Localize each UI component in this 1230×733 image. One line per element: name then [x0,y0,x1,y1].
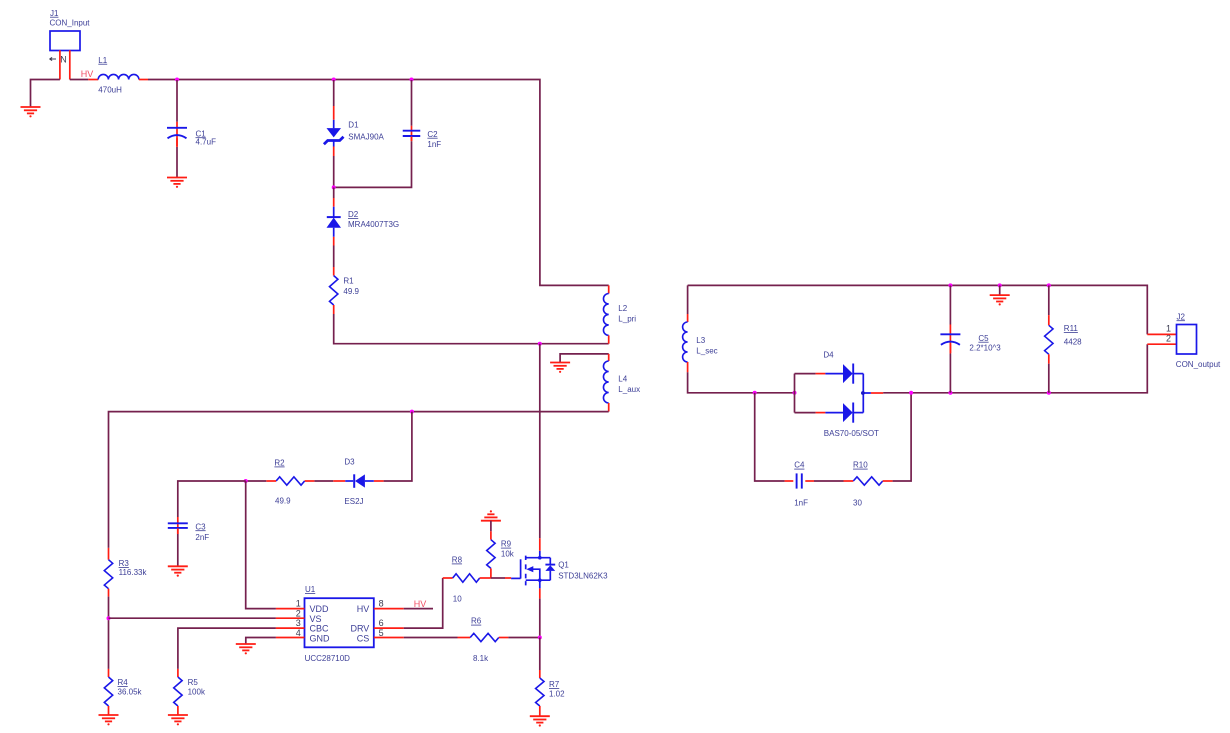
Q1 drain node dot [538,556,542,560]
diode D4 top half [825,364,863,384]
L2 bottom pin [608,335,610,343]
C4 left pin [785,480,794,482]
D2 bottom pin [333,237,335,246]
R1 top pin [333,267,335,276]
svg-text:VDD: VDD [310,604,330,614]
svg-text:DRV: DRV [350,624,369,634]
wire D2 to R1 [333,246,335,268]
svg-text:D1: D1 [348,120,359,129]
svg-text:6: 6 [379,618,384,628]
svg-text:4: 4 [296,628,301,638]
C3 top pin [177,517,179,534]
wire D4 top branch lead [795,373,816,375]
svg-text:J1: J1 [50,9,59,18]
C5 top pin [949,325,951,354]
ground at L4 top [550,363,570,373]
R1 bottom pin [333,305,335,314]
J1 pin 2 lead [69,50,71,79]
svg-text:1nF: 1nF [794,499,808,508]
U1 pin 5 lead [374,637,404,639]
svg-text:R8: R8 [452,556,463,565]
capacitor C3 [168,523,188,528]
inductor L4 aux [603,361,608,403]
Q1 drain pin [539,538,541,551]
wire VDD vertical [246,481,276,609]
R6 left pin [458,637,471,639]
ground below R5 [168,715,188,725]
wire L4 top to ground [560,354,609,362]
C4 right pin [805,480,814,482]
D3 right pin [374,480,384,482]
R4 top pin [108,669,110,677]
capacitor C4 [797,473,802,488]
svg-text:L2: L2 [618,304,627,313]
wire L3 to anode rail [688,372,795,393]
wire rail to C2 [411,80,413,126]
L3 top pin [687,314,689,322]
connector J1 body [50,31,80,51]
svg-text:2: 2 [1166,333,1171,343]
J1 pin 1 lead [59,50,61,79]
svg-text:L_aux: L_aux [618,385,640,394]
svg-text:R1: R1 [343,277,354,286]
node L2 return / drain rail [538,342,542,346]
R9 top pin [490,531,492,539]
svg-text:D3: D3 [344,457,355,466]
svg-text:BAS70-05/SOT: BAS70-05/SOT [824,429,879,438]
C2 top pin [411,126,413,141]
ground at input [21,107,41,117]
ground above R9 inverted [481,510,501,520]
node CS/R6/R7/source [538,636,542,640]
svg-text:MRA4007T3G: MRA4007T3G [348,220,399,229]
svg-text:HV: HV [81,69,94,79]
diode D2 symbol [327,207,342,237]
svg-text:VS: VS [310,614,322,624]
svg-text:L3: L3 [696,336,705,345]
transistor Q1 MOSFET symbol [511,551,555,589]
svg-text:U1: U1 [305,585,316,594]
J1 pin indicator arrow [50,57,57,60]
wire VDD node to C3 [178,481,246,517]
R10 left pin [844,480,854,482]
wire D1 to clamp node [333,156,335,187]
resistor R9 [487,540,495,569]
D3 left pin [333,480,345,482]
inductor L3 secondary [683,322,688,362]
resistor R1 [330,276,338,305]
resistor R11 [1045,325,1053,354]
svg-text:49.9: 49.9 [275,497,291,506]
wire U1 GND to ground [246,638,276,644]
svg-text:1: 1 [1166,324,1171,334]
J2 pin 2 lead [1147,343,1176,345]
wire rail to C5 top [949,285,951,324]
D2 top pin [333,198,335,207]
wire R2 to VDD node [246,480,267,482]
svg-text:R2: R2 [274,459,285,468]
inductor L2 primary [603,294,608,336]
wire CBC to R5 [178,628,276,669]
wire CS to R6 [404,637,458,639]
svg-text:C5: C5 [978,334,989,343]
svg-text:4428: 4428 [1064,337,1082,346]
svg-text:2.2*10^3: 2.2*10^3 [969,344,1001,353]
node clamp D1/C2/D2 [332,185,336,189]
wire C3 to ground [177,534,179,566]
svg-text:8.1k: 8.1k [473,654,489,663]
R10 right pin [883,480,893,482]
svg-text:R11: R11 [1064,324,1079,333]
svg-text:SMAJ90A: SMAJ90A [348,132,384,141]
node top rail / C5 [948,283,952,287]
R3 bottom pin [108,589,110,597]
wire aux rail to D3 [384,412,412,481]
Q1 source pin [539,588,541,598]
wire D4 bottom branch lead [795,412,816,414]
resistor R5 [174,677,182,706]
svg-text:N: N [60,54,67,64]
resistor R4 [104,677,112,706]
svg-text:36.05k: 36.05k [118,688,143,697]
svg-text:CON_Input: CON_Input [50,19,91,28]
C1 bottom pin [176,138,178,147]
R6 right pin [499,637,509,639]
svg-text:C4: C4 [794,461,805,470]
svg-text:R5: R5 [188,678,199,687]
R7 bottom pin [539,706,541,716]
svg-text:UCC28710D: UCC28710D [305,654,351,663]
wire J1 pin2 to L1 [70,79,89,81]
U1 pin 1 lead [276,608,305,610]
wire secondary ground stem [999,285,1001,294]
node anode rail / D4 [793,391,797,395]
op-amp U1 body UCC28710D [305,598,374,647]
node bottom rail / snubber right [909,391,913,395]
svg-text:3: 3 [296,618,301,628]
svg-text:CBC: CBC [310,624,330,634]
wire C4 to R10 [814,480,844,482]
svg-text:STD3LN62K3: STD3LN62K3 [558,571,608,580]
svg-text:C2: C2 [427,130,438,139]
wire ground to R9 [490,521,492,532]
R8 right pin [480,577,491,579]
ground at U1 GND pin [236,644,256,654]
resistor R7 [536,678,544,706]
resistor R8 [453,574,480,582]
svg-text:1.02: 1.02 [549,689,565,698]
svg-text:5: 5 [379,628,384,638]
svg-text:HV: HV [357,604,370,614]
D4 bottom anode pin [816,412,826,414]
L1 left pin [88,79,98,81]
svg-text:C3: C3 [195,522,206,531]
R5 bottom pin [177,706,179,715]
svg-text:ES2J: ES2J [344,497,363,506]
ground below R7 [530,716,550,726]
svg-text:2nF: 2nF [195,533,209,542]
wire rail to D1 [333,80,335,106]
C2 bottom pin [411,137,413,142]
wire drain rail down [539,344,541,539]
svg-text:R7: R7 [549,680,560,689]
svg-text:10k: 10k [501,550,515,559]
R2 right pin [305,480,315,482]
wire R1 to L2 bottom [334,314,609,344]
node top rail / R11 [1047,283,1051,287]
svg-text:10: 10 [453,594,462,603]
svg-text:L1: L1 [98,56,107,65]
R8 left pin [443,577,453,579]
node anode rail / snubber [753,391,757,395]
svg-text:8: 8 [379,599,384,609]
svg-text:4.7uF: 4.7uF [196,137,217,146]
ground below R4 [99,715,119,725]
wire R6 to CS node [508,637,539,639]
U1 pin 3 lead [276,627,305,629]
ground below C1 [167,178,187,188]
C5 bottom pin [949,343,951,353]
diode D1 TVS symbol [324,120,344,147]
wire C2 to clamp node [334,141,412,187]
wire C5 bottom to rail [949,354,951,393]
wire DRV to R8 [404,578,443,628]
node top rail / ground [998,283,1002,287]
diode D4 bottom half [825,403,863,423]
resistor R3 [104,560,112,589]
R11 bottom pin [1048,354,1050,363]
Q1 source node dot [538,578,542,582]
connector J2 body [1177,325,1197,355]
svg-text:R3: R3 [119,559,130,568]
svg-text:D2: D2 [348,210,359,219]
wire C1 to ground [176,147,178,177]
R2 left pin [266,480,276,482]
wire J1 pin1 to ground [31,80,60,107]
svg-text:30: 30 [853,499,862,508]
R11 top pin [1048,315,1050,325]
ground below C3 [168,566,188,576]
R4 bottom pin [108,706,110,715]
wire snubber right [893,393,912,481]
svg-text:470uH: 470uH [98,86,122,95]
node HV rail / D1 [332,78,336,82]
wire aux rail [109,412,609,548]
L2 top pin [608,285,610,293]
svg-text:L_sec: L_sec [696,347,717,356]
resistor R2 [276,477,305,485]
node HV rail / C2 [410,78,414,82]
capacitor C2 [403,131,421,136]
wire clamp node to D2 [333,187,335,198]
D1 bottom pin [333,147,335,157]
wire secondary top rail [688,285,1148,334]
resistor R6 [470,633,499,641]
D4 right bar [863,374,871,413]
svg-text:1: 1 [296,599,301,609]
C3 bottom pin [177,528,179,534]
svg-text:GND: GND [310,633,331,643]
svg-text:R4: R4 [118,678,129,687]
ground on secondary rail [990,295,1010,305]
wire CS node to R7 [539,638,541,671]
wire D4 left bar [794,374,796,413]
wire Q1 source to CS node [539,599,541,638]
capacitor C5 [940,334,960,345]
L4 bottom pin [608,403,610,412]
wire HV rail to primary [148,80,609,286]
Q1 gate pin [505,577,511,579]
svg-text:2: 2 [296,608,301,618]
U1 pin 6 lead [374,627,404,629]
svg-text:R6: R6 [471,617,482,626]
node bottom rail / R11 [1047,391,1051,395]
wire VS to U1 [109,617,276,619]
D4 cathode node dot [861,391,865,395]
capacitor C1 [167,128,187,139]
node VS divider [107,616,111,620]
D4 top anode pin [816,373,826,375]
node aux rail / D3 branch [410,410,414,414]
diode D3 symbol [345,474,374,488]
J2 pin 1 lead [1147,333,1176,335]
svg-text:R10: R10 [853,461,868,470]
wire R3 to R4 [108,597,110,669]
svg-text:L4: L4 [618,374,627,383]
svg-text:CS: CS [357,633,370,643]
U1 pin 4 lead [276,637,305,639]
node HV rail / C1 [175,78,179,82]
D1 top pin [333,106,335,120]
L4 top pin [608,354,610,361]
wire D3 to R2 [314,480,333,482]
svg-text:116.33k: 116.33k [119,568,148,577]
svg-text:1nF: 1nF [427,140,441,149]
wire rail to C1 [176,80,178,122]
svg-text:Q1: Q1 [558,560,569,569]
wire gate node to Q1 [491,577,505,579]
U1 pin 8 lead [374,608,404,610]
L1 right pin [139,79,148,81]
C1 top pin [176,122,178,146]
wire snubber left [755,393,785,481]
node VDD/C3/R2 [244,479,248,483]
resistor R10 [853,477,882,485]
L3 bottom pin [687,362,689,372]
svg-text:D4: D4 [823,351,834,360]
wire rail to R11 top [1048,285,1050,315]
wire output bottom rail [883,344,1147,393]
inductor L1 [98,74,139,79]
wire HV net stub [404,608,433,610]
svg-text:HV: HV [414,599,427,609]
svg-text:J2: J2 [1177,312,1186,321]
wire R11 bottom to rail [1048,364,1050,393]
wire L3 top [687,285,689,314]
R3 top pin [108,548,110,560]
svg-text:49.9: 49.9 [343,287,359,296]
U1 pin 2 lead [276,617,305,619]
svg-text:L_pri: L_pri [618,314,636,323]
R7 top pin [539,670,541,678]
D4 cathode pin [871,392,883,394]
svg-text:100k: 100k [188,688,206,697]
svg-text:R9: R9 [501,540,512,549]
svg-text:CON_output: CON_output [1176,360,1221,369]
R9 bottom pin [490,568,492,578]
node bottom rail / C5 [948,391,952,395]
R5 top pin [177,669,179,677]
